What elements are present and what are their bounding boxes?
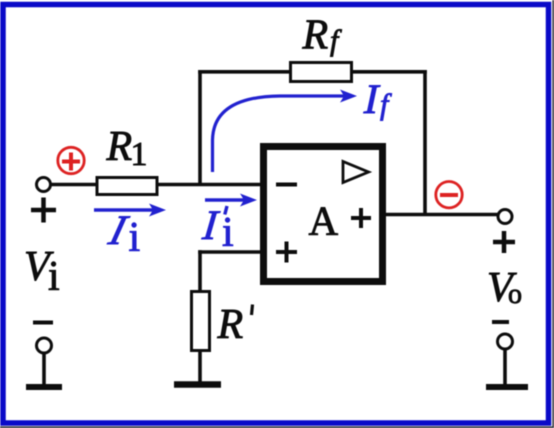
wire Vi bottom to ground — [42, 353, 46, 385]
svg-text:i: i — [48, 254, 60, 300]
op-amp triangle symbol — [343, 162, 369, 183]
input terminal Vi bottom — [37, 338, 52, 353]
wire op-amp noninverting input — [198, 250, 262, 254]
svg-text:R: R — [302, 13, 329, 59]
output terminal Vo bottom — [498, 334, 513, 349]
wire op-amp output to terminal — [384, 213, 498, 217]
wire R1 to op-amp inverting input — [157, 183, 262, 187]
wire feedback vertical right — [423, 70, 427, 216]
current arrow If curved — [213, 96, 345, 172]
resistor Rf — [291, 63, 352, 82]
svg-text:A: A — [309, 198, 339, 244]
svg-text:1: 1 — [131, 136, 148, 173]
svg-text:i: i — [222, 210, 234, 256]
wire junction vertical to feedback — [198, 70, 202, 186]
svg-text:i: i — [129, 215, 141, 261]
op-amp plus input mark — [276, 250, 297, 254]
wire R' to ground — [198, 350, 202, 383]
svg-text:R: R — [106, 124, 133, 170]
minus polarity Vo — [492, 320, 509, 324]
ground Vi — [26, 384, 62, 390]
ground Vo — [486, 384, 528, 390]
wire noninverting down to R' — [198, 250, 202, 292]
output terminal Vo top — [498, 210, 512, 224]
node plus mark red at input — [58, 147, 84, 173]
wire top feedback horizontal — [198, 70, 427, 74]
op-amp minus input mark — [276, 183, 297, 187]
svg-text:R: R — [217, 302, 244, 348]
wire input terminal to R1 — [51, 183, 97, 187]
ground R' — [174, 381, 221, 388]
svg-text:o: o — [508, 279, 522, 310]
current arrow I'i — [205, 198, 244, 201]
node minus mark red at output — [436, 182, 462, 208]
wire Vo bottom to ground — [503, 349, 507, 385]
op-amp output plus mark — [351, 216, 371, 220]
plus polarity Vo — [493, 240, 515, 245]
minus polarity Vi — [33, 321, 53, 325]
input terminal Vi top — [37, 178, 51, 192]
current arrow Ii — [94, 208, 153, 211]
resistor R' — [192, 292, 210, 351]
op-amp U1 box — [264, 147, 383, 282]
plus polarity Vi — [31, 208, 56, 213]
resistor R1 — [97, 178, 157, 195]
